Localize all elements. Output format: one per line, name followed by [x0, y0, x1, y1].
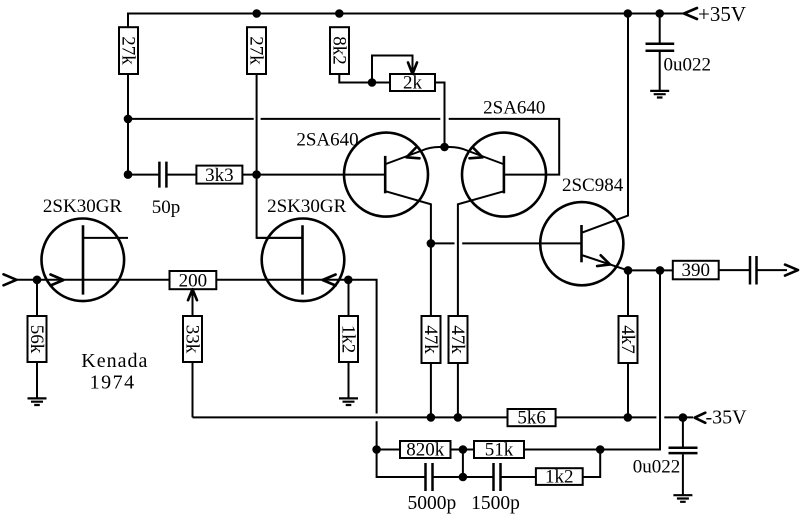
svg-text:2k: 2k — [403, 73, 423, 94]
resistor R3 8k2 — [329, 27, 350, 74]
svg-text:27k: 27k — [118, 36, 139, 65]
svg-text:1k2: 1k2 — [545, 467, 574, 488]
label C6 0u022 — [633, 457, 681, 478]
node dot Q2 gate/1k2 — [344, 276, 353, 285]
resistor R8 33k — [182, 316, 203, 362]
net label +35V — [698, 2, 746, 26]
label Q4 2SA640 — [483, 98, 545, 119]
wire R2 bottom column to node B and Q2 drain — [257, 74, 303, 238]
node dot rail/C6 — [679, 413, 688, 422]
ground G1 — [28, 398, 47, 405]
resistor R9 1k2 — [338, 316, 359, 362]
node dot A (R1/long wire) — [124, 115, 133, 124]
arrow R6 wiper (up) — [188, 289, 197, 300]
output arrow — [785, 265, 798, 276]
-35V supply arrow — [695, 413, 706, 423]
label C1 50p — [152, 197, 181, 218]
node dot row2 middle — [459, 473, 468, 482]
svg-text:-35V: -35V — [706, 407, 748, 429]
capacitor C3 output — [750, 256, 757, 285]
resistor R5 3k3 — [196, 165, 242, 186]
+35V supply arrow — [684, 8, 697, 19]
svg-text:1500p: 1500p — [471, 493, 520, 514]
resistor R11 47k — [447, 316, 468, 363]
wire Q5 base row (hop at 47k2 column) — [431, 242, 582, 244]
ground G4 — [673, 495, 692, 502]
label Q2 2SK30GR — [267, 196, 347, 217]
arrow R4 wiper (down) — [408, 63, 417, 75]
wire 56k top — [36, 280, 38, 316]
wire +35V rail — [128, 14, 684, 28]
capacitor C4 5000p — [426, 463, 433, 491]
trimmer R6 200 — [170, 270, 217, 291]
wire R5 to node B and Q3 base — [242, 174, 385, 176]
wire 1k2 top — [348, 280, 350, 316]
svg-text:27k: 27k — [246, 36, 267, 65]
resistor R15 820k — [400, 440, 451, 461]
node dot rail/R12 — [624, 413, 633, 422]
node dot Q5 emitter — [624, 266, 633, 275]
ground G3 — [650, 91, 669, 98]
transistor Q3 2SA640 — [344, 133, 445, 316]
wire C4 to node — [433, 476, 494, 478]
wire R15 to R16 — [451, 449, 475, 451]
net label -35V — [706, 407, 748, 429]
node dot rail/C2 — [655, 9, 664, 18]
svg-text:1974: 1974 — [90, 372, 136, 394]
transistor Q1 2SK30GR — [42, 218, 129, 301]
svg-text:5000p: 5000p — [408, 493, 457, 514]
resistor R12 4k7 — [617, 316, 638, 363]
node dot rail/R10 — [427, 413, 436, 422]
wire 4k7 top — [627, 270, 629, 316]
resistor R14 5k6 — [508, 408, 556, 429]
node dot B (R2/3k3/Q3 base) — [252, 170, 261, 179]
svg-text:+35V: +35V — [698, 2, 746, 26]
wire 3k3 row from node A to 50p — [128, 174, 159, 176]
svg-text:2SK30GR: 2SK30GR — [267, 196, 347, 217]
resistor R10 47k — [420, 316, 441, 363]
resistor R17 1k2 — [536, 467, 583, 488]
transistor Q4 2SA640 — [445, 133, 547, 316]
svg-text:56k: 56k — [26, 325, 47, 354]
label Q5 2SC984 — [562, 175, 624, 196]
node dot A2 (R1/3k3 row) — [124, 170, 133, 179]
wire row1-row2 link — [462, 450, 464, 478]
label C4 5000p — [408, 493, 457, 514]
wire output vertical to feedback row — [600, 270, 660, 449]
wire R4 right to emitters node — [435, 83, 445, 148]
wire R10 bottom — [430, 363, 432, 417]
text Kenada 1974 — [81, 350, 148, 394]
resistor R13 390 — [673, 260, 719, 281]
svg-text:390: 390 — [682, 260, 711, 281]
svg-text:4k7: 4k7 — [617, 325, 638, 354]
arrow Q1 gate — [51, 275, 64, 286]
wire output cap to arrow — [757, 269, 788, 271]
wire R6 wiper to R8 — [192, 289, 194, 316]
wire R3 bottom to trimmer R4 — [339, 74, 390, 83]
wire row1 right to 1k2b — [583, 450, 601, 478]
resistor R7 56k — [26, 316, 47, 362]
wire C1 to R5 — [166, 174, 196, 176]
svg-text:2SC984: 2SC984 — [562, 175, 624, 196]
node dot row1 right — [596, 445, 605, 454]
wire 56k bottom — [36, 362, 38, 398]
wire 200 box to Q2 gate node — [216, 279, 348, 281]
svg-text:0u022: 0u022 — [664, 55, 712, 76]
resistor R2 27k — [246, 27, 267, 74]
capacitor C6 0u022 bottom — [669, 418, 698, 496]
svg-text:8k2: 8k2 — [329, 36, 350, 65]
node dot rail/27k2 — [252, 9, 261, 18]
svg-text:47k: 47k — [420, 325, 441, 354]
svg-text:3k3: 3k3 — [205, 165, 234, 186]
arrow Q4 emitter — [470, 148, 483, 158]
wire R8 bottom to -35V rail — [192, 362, 194, 417]
svg-text:50p: 50p — [152, 197, 181, 218]
ground G2 — [339, 398, 358, 405]
node dot output/feedback — [656, 266, 665, 275]
wire R16 right to output column — [524, 449, 600, 451]
node dot E (Q3/Q4 emitters) — [440, 143, 449, 152]
transistor Q5 2SC984 — [540, 14, 628, 286]
node dot rail/Q5 collector — [624, 9, 633, 18]
svg-text:Kenada: Kenada — [81, 350, 148, 372]
node dot R3/R4 wiper loop — [368, 78, 377, 87]
node dot rail/R11 — [454, 413, 463, 422]
label C5 1500p — [471, 493, 520, 514]
arrow Q2 gate — [323, 275, 336, 286]
capacitor C5 1500p — [494, 463, 501, 491]
resistor R1 27k — [118, 27, 139, 74]
input arrow — [4, 274, 17, 285]
wire R11 bottom — [457, 363, 459, 417]
wire input line to 200 box — [17, 279, 170, 281]
svg-text:1k2: 1k2 — [338, 325, 359, 354]
svg-text:2SK30GR: 2SK30GR — [43, 196, 123, 217]
wire emitter to 390 — [628, 269, 673, 271]
wire R1 bottom column — [127, 74, 129, 175]
resistor R16 51k — [474, 440, 524, 461]
node dot row1 middle — [459, 445, 468, 454]
node dot Q3 collector / Q5 base row — [427, 239, 436, 248]
wire 390 to output cap — [719, 269, 750, 271]
wire Q2 gate node to feedback column (hop at rail) — [348, 280, 425, 477]
capacitor C1 50p — [159, 162, 166, 188]
wire R4 wiper loop — [372, 56, 413, 83]
svg-text:820k: 820k — [406, 440, 445, 461]
svg-text:2SA640: 2SA640 — [296, 130, 358, 151]
svg-text:33k: 33k — [182, 325, 203, 354]
wire R12 bottom — [627, 363, 629, 417]
node dot rail/8k2 — [335, 9, 344, 18]
svg-text:0u022: 0u022 — [633, 457, 681, 478]
wire long horizontal to Q4 base (with hop gaps) — [128, 119, 559, 175]
arrow Q5 emitter — [597, 255, 610, 266]
wire feedback row1 left — [377, 449, 400, 451]
node dot feedback row left — [372, 445, 381, 454]
wire -35V rail (hops at x377 handled, gaps at x660) — [193, 416, 694, 418]
node dot input/56k — [33, 276, 42, 285]
transistor Q2 2SK30GR — [257, 218, 345, 301]
capacitor C2 0u022 top — [646, 14, 675, 91]
svg-text:2SA640: 2SA640 — [483, 98, 545, 119]
svg-text:47k: 47k — [447, 325, 468, 354]
label Q1 2SK30GR — [43, 196, 123, 217]
arrow Q3 emitter — [407, 148, 420, 158]
svg-text:5k6: 5k6 — [517, 408, 546, 429]
wire 1k2 bottom — [348, 362, 350, 398]
label Q3 2SA640 — [296, 130, 358, 151]
trimmer R4 2k — [390, 73, 435, 94]
wire C5 to R17 — [501, 476, 536, 478]
label C2 0u022 — [664, 55, 712, 76]
svg-text:51k: 51k — [485, 440, 514, 461]
